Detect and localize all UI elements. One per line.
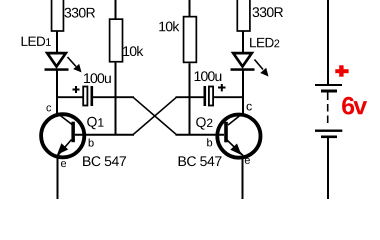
capacitor C1 100u (83, 86, 93, 106)
pin label c (Q1 collector) (47, 105, 52, 111)
pin label b (Q2 base) (207, 138, 212, 146)
wire top rail to R4 (189, 0, 191, 17)
wire C1 negative plate to crossover (93, 96, 134, 98)
wire R3 bottom to LED2 anode (242, 31, 244, 53)
wire top rail to R2 (115, 0, 117, 19)
plus sign of C2 (218, 84, 226, 91)
part label BC 547 (Q2) (179, 156, 222, 166)
wire R4 bottom to Q2 base (189, 63, 191, 135)
resistor R3 330R (right) (237, 0, 250, 31)
LED D2 (231, 53, 269, 76)
transistor Q2 BC547 (217, 114, 260, 158)
resistor R2 10k (left) (110, 19, 123, 62)
resistor R1 330R (left) (52, 0, 64, 31)
battery plus sign (red) (335, 65, 348, 76)
resistor R4 10k (right) (184, 17, 197, 63)
wire LED1 cathode to Q1 collector (56, 71, 58, 115)
capacitor C2 100u (204, 86, 214, 106)
pin label b (Q1 base) (89, 139, 94, 147)
wire Q2 emitter to bottom rail (242, 156, 244, 199)
value label 330R (R1) (65, 8, 96, 18)
value label 6v (red) (342, 97, 367, 115)
label LED2 (250, 38, 279, 47)
part label BC 547 (Q1) (83, 156, 126, 166)
plus sign of C1 (73, 86, 80, 93)
wire crossover diagonal Q1 base to C2 negative plate (133, 97, 177, 135)
value label 10k (R2) (123, 46, 143, 56)
reference label Q2 (196, 117, 212, 129)
value label 100u (C1) (84, 73, 111, 83)
pin label e (Q1 emitter) (61, 161, 66, 167)
wire R1 bottom to LED1 anode (56, 31, 58, 53)
wire Q1 collector node to C1 positive plate (56, 96, 83, 98)
LED D1 (45, 53, 82, 72)
value label 330R (R3) (253, 7, 284, 17)
wire Q1 base to crossover (75, 134, 134, 136)
wire battery negative to bottom rail (327, 138, 329, 199)
pin label c (Q2 collector) (247, 104, 252, 111)
wire crossover to C2 negative plate (176, 96, 204, 98)
battery BT1 6v (315, 84, 342, 138)
transistor Q1 BC547 (41, 113, 84, 157)
wire R2 bottom to Q1 base (115, 63, 117, 136)
pin label e (Q2 emitter) (245, 158, 250, 164)
value label 100u (C2) (195, 71, 222, 81)
wire crossover diagonal C1 to Q2 base (133, 97, 177, 135)
wire Q2 base segment (176, 134, 225, 136)
wire LED2 cathode to Q2 collector (242, 71, 244, 115)
wire top rail to battery positive (327, 0, 329, 84)
wire C2 positive plate to Q2 collector node (214, 96, 244, 98)
wire Q1 emitter to bottom rail (57, 156, 59, 199)
value label 10k (R4) (159, 21, 179, 31)
label LED1 (22, 37, 51, 46)
reference label Q1 (87, 117, 103, 129)
